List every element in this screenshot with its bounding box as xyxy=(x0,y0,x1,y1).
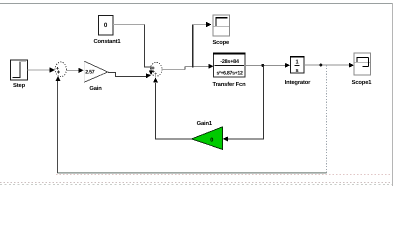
svg-text:Integrator: Integrator xyxy=(285,80,311,86)
gain block Gain (2.57) xyxy=(84,61,108,92)
wire Gain1 output to Sum2 bottom xyxy=(155,83,191,139)
svg-text:s²+6.87s+12: s²+6.87s+12 xyxy=(216,71,243,77)
svg-text:Step: Step xyxy=(13,82,26,89)
svg-text:Scope: Scope xyxy=(212,39,230,46)
wire outer feedback: left vertical xyxy=(56,81,58,173)
sum block Sum1 xyxy=(55,62,66,77)
node junction after Integrator xyxy=(319,64,322,67)
arrowhead into Gain xyxy=(78,68,83,73)
block Scope1 xyxy=(352,53,373,86)
svg-text:Gain: Gain xyxy=(89,85,102,92)
arrowhead into Scope xyxy=(206,22,211,27)
wire Step to Sum1 xyxy=(28,69,52,71)
block Constant1 xyxy=(94,16,122,46)
block Scope xyxy=(212,15,230,46)
window top chrome line xyxy=(0,3,392,5)
arrowhead into Sum2 top-left xyxy=(149,70,154,75)
block Integrator xyxy=(285,57,311,87)
node junction after Transfer Fcn xyxy=(261,64,264,67)
svg-text:Gain1: Gain1 xyxy=(197,120,213,127)
window right border xyxy=(392,3,394,186)
svg-text:Scope1: Scope1 xyxy=(352,79,373,86)
page boundary dashed line 2 xyxy=(0,182,392,184)
page boundary dashed line 3 xyxy=(0,184,392,186)
page boundary dashed line 1 xyxy=(56,174,392,176)
arrowhead into Transfer Fcn xyxy=(208,64,213,69)
arrowhead into Integrator xyxy=(285,63,290,68)
arrowhead into Sum2 bottom (pointing up) xyxy=(153,77,158,82)
svg-text:Transfer Fcn: Transfer Fcn xyxy=(213,81,247,88)
wire Constant1 to Sum2 xyxy=(113,24,145,26)
wire inner feedback down from junction xyxy=(228,65,264,138)
wire tap up to Scope xyxy=(192,25,194,68)
block Step xyxy=(11,60,28,89)
arrowhead into Scope1 xyxy=(349,63,354,68)
svg-text:-28s+84: -28s+84 xyxy=(220,59,239,65)
wire Sum2 output (jog up) xyxy=(162,69,185,71)
svg-text:s: s xyxy=(295,68,298,74)
wire outer feedback: bottom horizontal xyxy=(57,172,326,174)
arrowhead into Sum1 bottom (pointing up) xyxy=(56,76,61,81)
svg-text:Constant1: Constant1 xyxy=(94,38,122,45)
block Transfer Fcn xyxy=(213,54,247,89)
canvas background xyxy=(0,0,396,186)
arrowhead into Gain1 (pointing left) xyxy=(223,137,228,142)
svg-text:1: 1 xyxy=(295,59,298,65)
svg-text:0: 0 xyxy=(104,22,108,29)
svg-text:0: 0 xyxy=(210,137,213,143)
wire Gain to Sum2 (with jog) xyxy=(108,73,147,77)
wire Integrator to Scope1 xyxy=(304,64,350,66)
sum block Sum2 xyxy=(151,62,162,76)
arrowhead into Sum1 left xyxy=(49,67,54,73)
wire Transfer Fcn to Integrator xyxy=(245,64,286,66)
svg-text:2.57: 2.57 xyxy=(85,69,95,75)
gain block Gain1 (green, pointing left) xyxy=(192,120,223,149)
wire outer feedback: right vertical (dashed look) xyxy=(326,65,328,173)
arrowhead into Sum2 lower-left xyxy=(146,73,151,78)
wire Sum1 to Gain xyxy=(66,69,79,71)
